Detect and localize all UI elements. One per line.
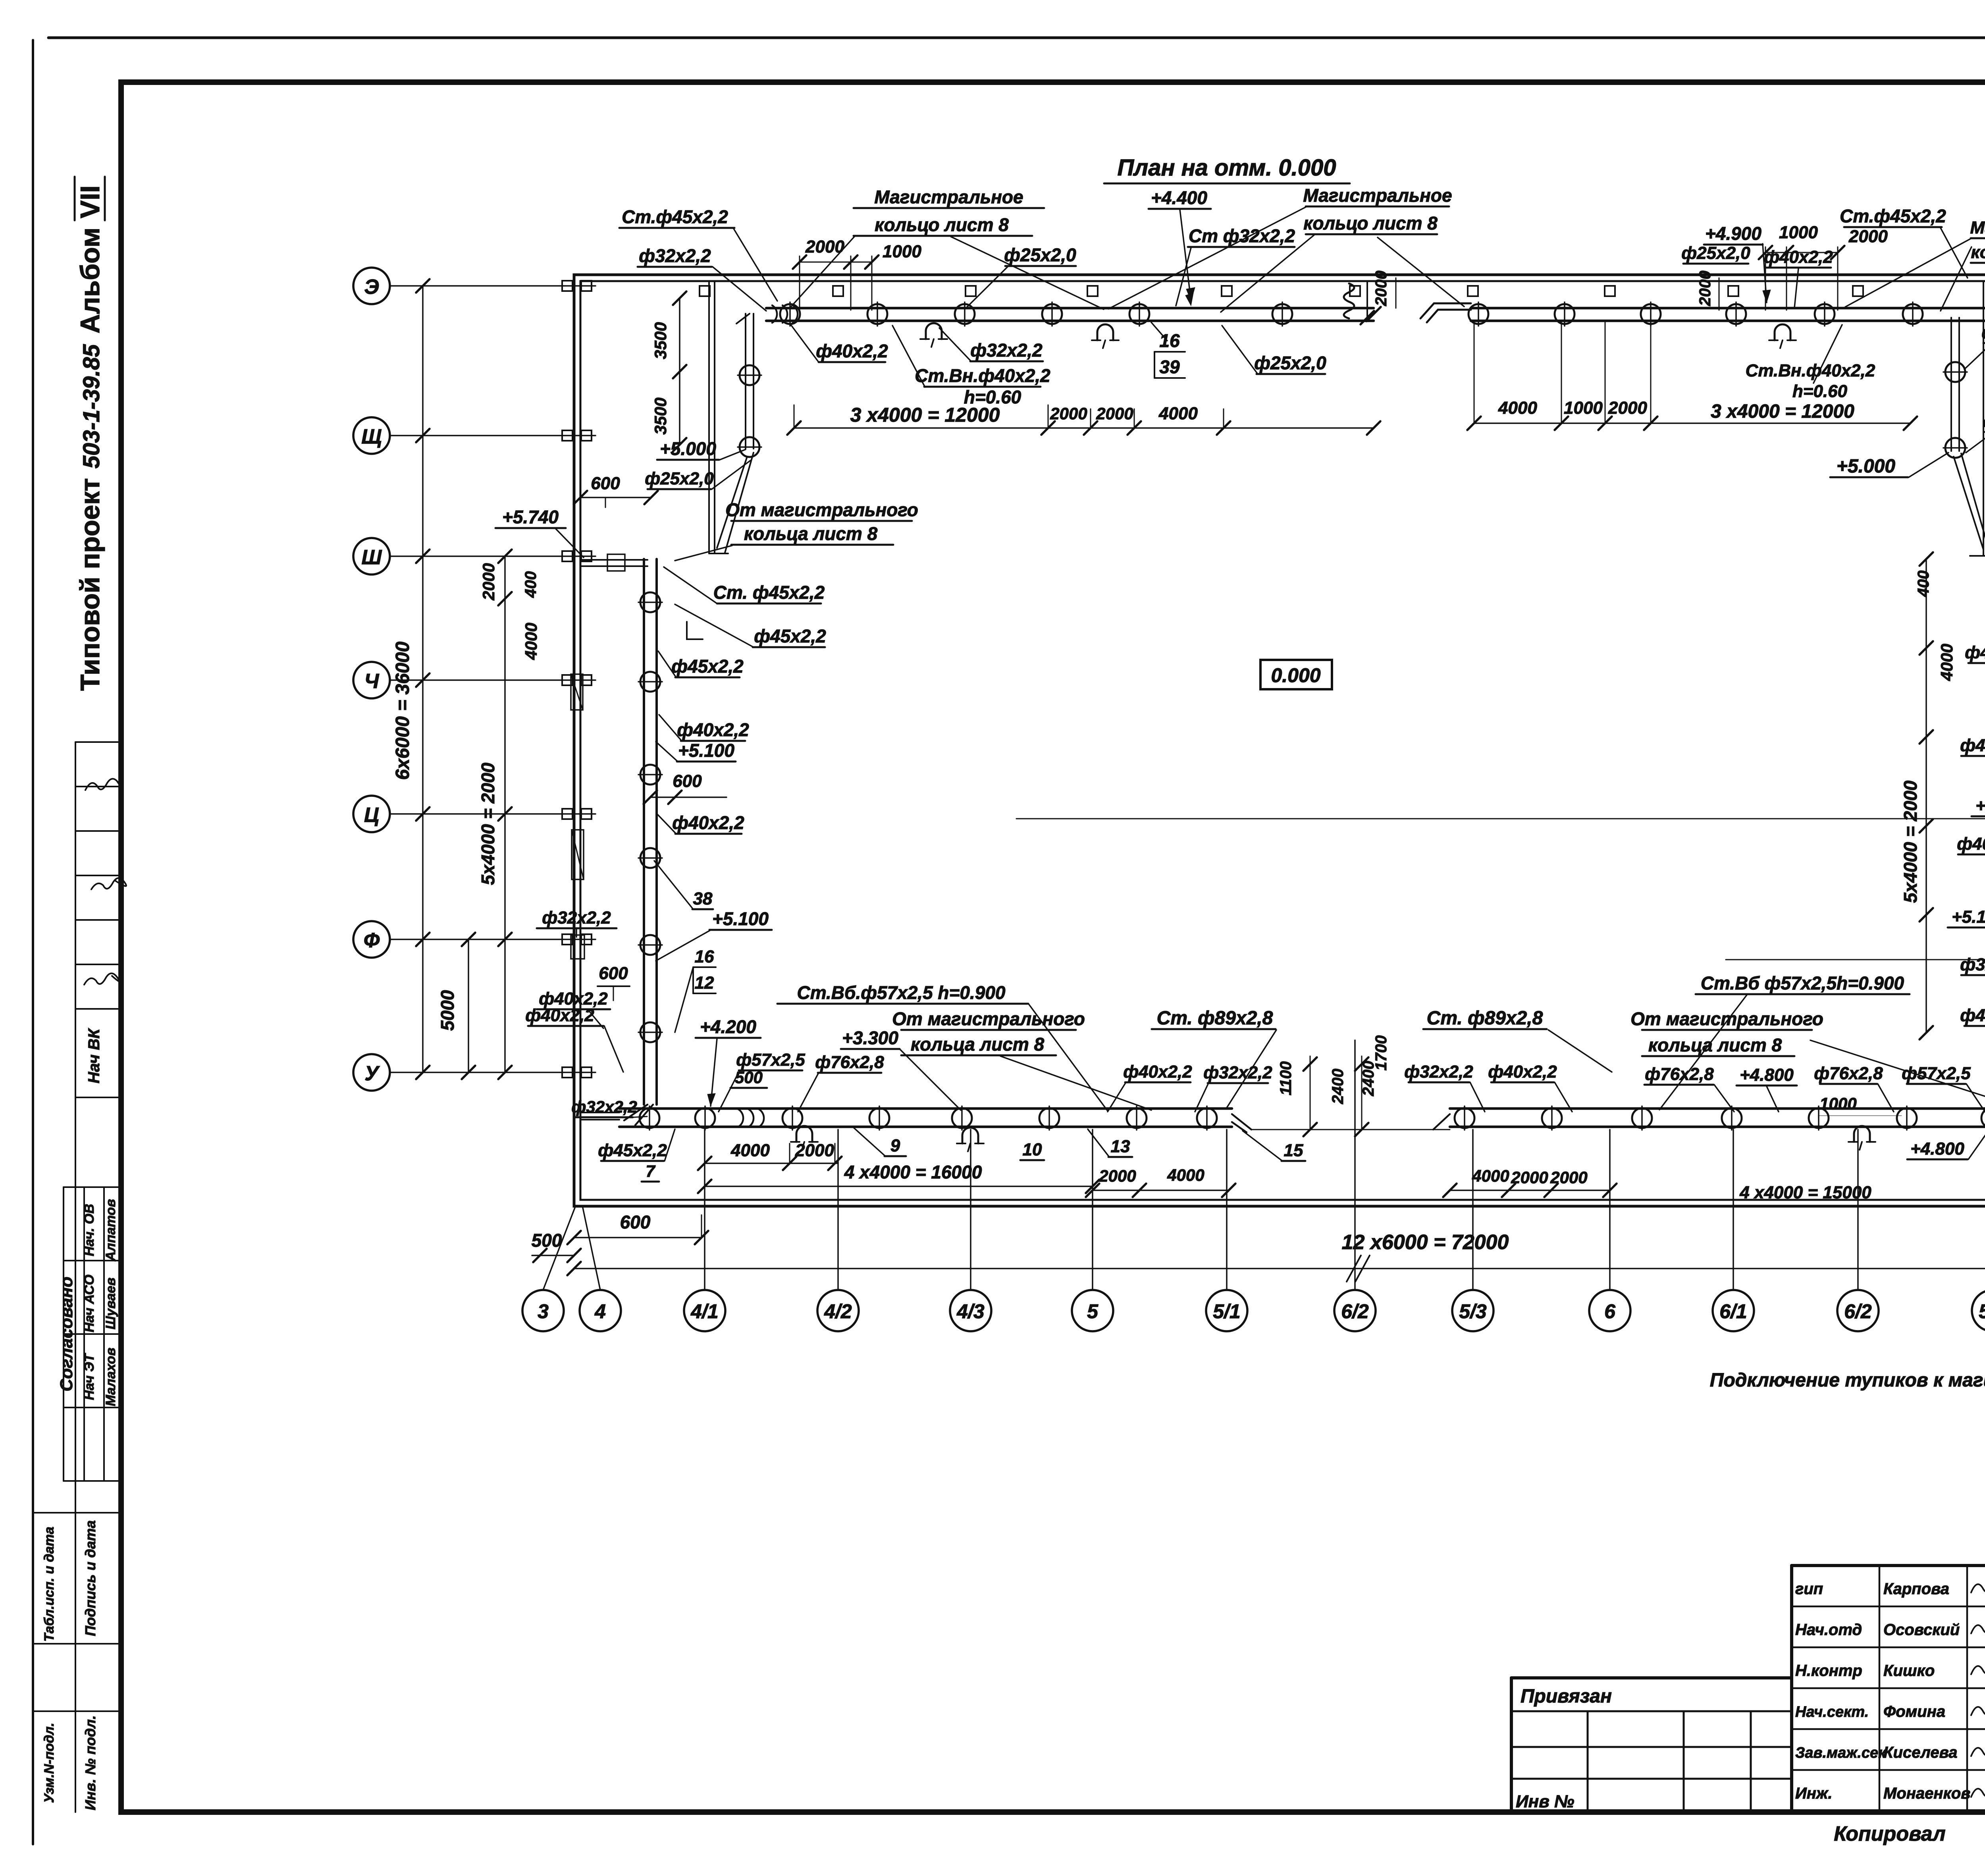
svg-text:ф32х2,2: ф32х2,2 — [571, 1097, 637, 1116]
svg-text:5: 5 — [1087, 1300, 1098, 1323]
svg-text:3500: 3500 — [651, 397, 670, 434]
svg-text:ф40х2,2: ф40х2,2 — [1960, 1006, 1985, 1025]
svg-text:4000: 4000 — [730, 1141, 770, 1160]
svg-text:ф25х2,0: ф25х2,0 — [1681, 243, 1750, 263]
svg-text:Ст.Вб ф57х2,5h=0.900: Ст.Вб ф57х2,5h=0.900 — [1701, 973, 1904, 993]
svg-text:ф32х2,2: ф32х2,2 — [1981, 323, 1985, 342]
svg-text:+4.800: +4.800 — [1910, 1139, 1964, 1159]
svg-text:6/2: 6/2 — [1341, 1300, 1369, 1323]
svg-text:+5.100: +5.100 — [712, 908, 769, 929]
svg-text:500: 500 — [532, 1230, 562, 1251]
svg-text:Монаенков: Монаенков — [1883, 1785, 1970, 1802]
svg-text:4/2: 4/2 — [824, 1300, 852, 1323]
svg-text:ф76х2,8: ф76х2,8 — [1645, 1064, 1714, 1084]
svg-text:Ст. ф89х2,8: Ст. ф89х2,8 — [1157, 1008, 1273, 1029]
svg-text:6х6000 = 36000: 6х6000 = 36000 — [392, 642, 413, 780]
svg-text:ф40х2,2: ф40х2,2 — [816, 341, 888, 361]
svg-text:Н.контр: Н.контр — [1795, 1662, 1862, 1679]
svg-text:ф32х2,2: ф32х2,2 — [639, 245, 711, 266]
svg-text:+3.300: +3.300 — [842, 1028, 898, 1048]
svg-text:1000: 1000 — [1564, 398, 1603, 418]
svg-text:2000: 2000 — [1098, 1166, 1136, 1185]
svg-text:2000: 2000 — [1848, 227, 1888, 246]
svg-text:Киселева: Киселева — [1883, 1744, 1957, 1761]
svg-text:2400: 2400 — [1329, 1069, 1347, 1105]
svg-text:503-1-39.85: 503-1-39.85 — [79, 344, 104, 469]
svg-text:+5.100: +5.100 — [1952, 907, 1985, 927]
svg-text:3 х4000 = 12000: 3 х4000 = 12000 — [850, 404, 1000, 426]
svg-text:2000: 2000 — [1608, 398, 1647, 418]
svg-text:+5.000: +5.000 — [660, 438, 716, 459]
svg-text:Ц: Ц — [364, 804, 379, 827]
svg-text:Согласовано: Согласовано — [57, 1276, 76, 1391]
svg-text:Узм.N-подл.: Узм.N-подл. — [42, 1723, 57, 1803]
svg-text:ф57х2,5: ф57х2,5 — [736, 1050, 805, 1070]
svg-text:600: 600 — [673, 771, 702, 791]
svg-text:4 х4000 = 16000: 4 х4000 = 16000 — [844, 1162, 982, 1182]
svg-text:Малахов: Малахов — [103, 1348, 118, 1406]
svg-text:16: 16 — [695, 947, 714, 966]
svg-text:Табл.исп. и дата: Табл.исп. и дата — [42, 1527, 57, 1642]
svg-text:2000: 2000 — [1696, 271, 1714, 307]
svg-text:2000: 2000 — [805, 237, 844, 256]
svg-text:Ст. ф45х2,2: Ст. ф45х2,2 — [713, 582, 825, 603]
svg-text:Ст.ф45х2,2: Ст.ф45х2,2 — [622, 206, 728, 227]
svg-text:2000: 2000 — [1550, 1168, 1587, 1187]
svg-text:Инв №: Инв № — [1516, 1792, 1574, 1811]
svg-text:Ст. ф89х2,8: Ст. ф89х2,8 — [1427, 1008, 1543, 1029]
svg-text:ф45х2,2: ф45х2,2 — [1965, 643, 1985, 662]
svg-text:ф25х2,0: ф25х2,0 — [1254, 353, 1326, 373]
svg-text:600: 600 — [599, 964, 628, 983]
svg-text:2000: 2000 — [1372, 271, 1390, 307]
svg-text:ф40х2,2: ф40х2,2 — [1957, 834, 1985, 854]
svg-text:4/3: 4/3 — [956, 1300, 985, 1323]
svg-text:Копировал: Копировал — [1834, 1822, 1945, 1845]
svg-text:10: 10 — [1023, 1140, 1042, 1159]
svg-text:1000: 1000 — [1779, 223, 1818, 242]
svg-text:4000: 4000 — [1167, 1166, 1204, 1184]
svg-text:38: 38 — [693, 889, 713, 908]
svg-text:ф25х2,0: ф25х2,0 — [645, 469, 714, 488]
svg-text:ф76х2,8: ф76х2,8 — [1814, 1064, 1883, 1083]
svg-text:Нач.сект.: Нач.сект. — [1795, 1704, 1869, 1720]
svg-text:4000: 4000 — [1158, 404, 1198, 423]
svg-text:ф25х2,0: ф25х2,0 — [1004, 245, 1076, 265]
svg-text:Нач.отд: Нач.отд — [1795, 1621, 1862, 1639]
svg-text:1000: 1000 — [883, 242, 921, 261]
svg-text:6/1: 6/1 — [1719, 1300, 1747, 1323]
svg-text:2000: 2000 — [795, 1141, 834, 1160]
svg-text:Алпатов: Алпатов — [103, 1199, 118, 1261]
svg-text:2000: 2000 — [1050, 404, 1087, 423]
svg-text:5/3: 5/3 — [1979, 1300, 1985, 1323]
svg-text:От магистрального: От магистрального — [1630, 1008, 1823, 1029]
svg-text:кольца лист 8: кольца лист 8 — [1648, 1035, 1782, 1055]
svg-text:ф32х2,2: ф32х2,2 — [542, 908, 611, 927]
svg-text:Подпись и дата: Подпись и дата — [82, 1520, 98, 1636]
svg-text:3: 3 — [538, 1300, 549, 1323]
svg-text:ф40х2,2: ф40х2,2 — [677, 719, 749, 740]
svg-text:5х4000 = 2000: 5х4000 = 2000 — [1900, 780, 1921, 903]
svg-text:ф45х2,2: ф45х2,2 — [671, 656, 744, 677]
svg-text:h=0.60: h=0.60 — [1792, 382, 1848, 401]
svg-text:Зав.маж.сек: Зав.маж.сек — [1795, 1745, 1887, 1761]
svg-text:16: 16 — [1159, 330, 1180, 351]
svg-text:От магистрального: От магистрального — [892, 1008, 1085, 1029]
svg-text:Ст.ф45х2,2: Ст.ф45х2,2 — [1840, 206, 1946, 226]
svg-text:кольца лист 8: кольца лист 8 — [744, 523, 878, 544]
svg-text:5000: 5000 — [437, 990, 458, 1031]
svg-text:400: 400 — [1915, 571, 1932, 598]
svg-text:Нач. ОВ: Нач. ОВ — [82, 1204, 97, 1256]
svg-text:ф25х2,0: ф25х2,0 — [1983, 412, 1985, 431]
svg-text:ф40х2,2: ф40х2,2 — [1960, 736, 1985, 755]
svg-text:500: 500 — [735, 1068, 763, 1087]
svg-text:15: 15 — [1284, 1141, 1303, 1160]
svg-text:План на отм. 0.000: План на отм. 0.000 — [1117, 155, 1336, 181]
svg-text:ф40х2,2: ф40х2,2 — [525, 1006, 594, 1025]
svg-text:ф40х2,2: ф40х2,2 — [1488, 1062, 1557, 1082]
svg-text:кольца лист 8: кольца лист 8 — [911, 1034, 1045, 1055]
svg-text:Ст.Вб.ф57х2,5 h=0.900: Ст.Вб.ф57х2,5 h=0.900 — [797, 982, 1005, 1003]
svg-text:Щ: Щ — [361, 425, 382, 448]
svg-text:4 х4000 = 15000: 4 х4000 = 15000 — [1739, 1183, 1871, 1202]
svg-text:0.000: 0.000 — [1271, 664, 1320, 686]
svg-text:Э: Э — [364, 276, 379, 299]
svg-text:2000: 2000 — [1096, 404, 1133, 423]
svg-text:Шуваев: Шуваев — [103, 1278, 118, 1330]
svg-text:Осовский: Осовский — [1883, 1621, 1960, 1639]
svg-text:1100: 1100 — [1277, 1061, 1295, 1095]
svg-text:Типовой проект: Типовой проект — [75, 478, 105, 691]
svg-text:3500: 3500 — [651, 322, 670, 359]
svg-text:5/3: 5/3 — [1459, 1300, 1487, 1323]
svg-text:12 х6000 = 72000: 12 х6000 = 72000 — [1342, 1231, 1509, 1254]
svg-text:ф32х2,2: ф32х2,2 — [1404, 1062, 1473, 1082]
svg-text:Нач АСО: Нач АСО — [82, 1274, 97, 1332]
svg-text:600: 600 — [620, 1212, 651, 1232]
svg-text:+4.800: +4.800 — [1740, 1065, 1794, 1085]
svg-text:Инж.: Инж. — [1795, 1785, 1833, 1802]
svg-text:кольцо лист 8: кольцо лист 8 — [875, 214, 1009, 235]
svg-text:4000: 4000 — [522, 623, 540, 660]
svg-text:Ш: Ш — [362, 546, 382, 569]
svg-text:Инв. № подл.: Инв. № подл. — [82, 1715, 98, 1810]
svg-text:Нач ЭТ: Нач ЭТ — [82, 1352, 97, 1400]
svg-text:2000: 2000 — [479, 563, 498, 600]
svg-text:+4.400: +4.400 — [1151, 187, 1207, 208]
svg-text:4: 4 — [594, 1300, 606, 1323]
svg-text:Фомина: Фомина — [1883, 1703, 1945, 1720]
svg-text:7: 7 — [646, 1162, 655, 1180]
svg-text:Карпова: Карпова — [1883, 1580, 1949, 1598]
svg-text:9: 9 — [890, 1136, 900, 1155]
svg-text:ф40х2,2: ф40х2,2 — [672, 812, 744, 833]
svg-text:+5.100: +5.100 — [1975, 796, 1985, 816]
svg-text:+5.740: +5.740 — [502, 507, 559, 527]
svg-text:1700: 1700 — [1372, 1035, 1390, 1071]
svg-text:Подключение тупиков к магис: Подключение тупиков к магистральному кол… — [1710, 1370, 1985, 1391]
svg-text:Нач ВК: Нач ВК — [85, 1028, 103, 1084]
svg-text:6: 6 — [1604, 1300, 1616, 1323]
svg-text:От магистрального: От магистрального — [725, 499, 918, 520]
svg-text:4/1: 4/1 — [690, 1300, 719, 1323]
svg-text:Ст.Вн.ф40х2,2: Ст.Вн.ф40х2,2 — [1746, 361, 1875, 380]
svg-text:Альбом: Альбом — [75, 228, 105, 334]
svg-text:Ф: Ф — [364, 929, 380, 952]
svg-text:ф45х2,2: ф45х2,2 — [598, 1141, 667, 1160]
svg-text:Магистральное: Магистральное — [874, 187, 1023, 207]
svg-text:6/2: 6/2 — [1844, 1300, 1872, 1323]
svg-text:5х4000 = 2000: 5х4000 = 2000 — [478, 762, 498, 885]
svg-text:4000: 4000 — [1472, 1166, 1509, 1185]
svg-text:У: У — [364, 1062, 380, 1085]
svg-text:400: 400 — [522, 571, 540, 598]
svg-text:Привязан: Привязан — [1521, 1686, 1612, 1707]
svg-text:ф32х2,2: ф32х2,2 — [1960, 955, 1985, 974]
svg-text:600: 600 — [591, 474, 620, 493]
svg-text:Ст ф32х2,2: Ст ф32х2,2 — [1189, 226, 1295, 246]
svg-text:ф40х2,2: ф40х2,2 — [1123, 1062, 1192, 1082]
svg-text:гип: гип — [1795, 1580, 1823, 1598]
svg-text:Кишко: Кишко — [1883, 1662, 1935, 1679]
svg-text:ф32х2,2: ф32х2,2 — [970, 340, 1043, 361]
svg-text:ф76х2,8: ф76х2,8 — [815, 1053, 884, 1072]
svg-text:+4.900: +4.900 — [1705, 223, 1761, 244]
svg-text:ф45х2,2: ф45х2,2 — [754, 626, 826, 646]
svg-text:4000: 4000 — [1937, 644, 1956, 681]
svg-text:+5.000: +5.000 — [1837, 456, 1895, 477]
svg-text:5/1: 5/1 — [1213, 1300, 1241, 1323]
svg-text:Ч: Ч — [364, 670, 380, 693]
svg-text:VII: VII — [75, 185, 105, 218]
svg-text:кольцо лист 8: кольцо лист 8 — [1303, 213, 1438, 233]
svg-text:12: 12 — [695, 973, 714, 993]
svg-text:кольцо лист 8: кольцо лист 8 — [1971, 243, 1985, 262]
svg-text:39: 39 — [1159, 357, 1180, 377]
svg-text:ф32х2,2: ф32х2,2 — [1203, 1063, 1272, 1082]
svg-text:3 х4000 = 12000: 3 х4000 = 12000 — [1711, 401, 1854, 422]
svg-text:13: 13 — [1111, 1137, 1130, 1156]
svg-text:Магистральное: Магистральное — [1303, 185, 1452, 206]
svg-text:Магистральное: Магистральное — [1970, 218, 1985, 237]
svg-text:ф40х2,2: ф40х2,2 — [1764, 247, 1833, 267]
svg-text:1000: 1000 — [1819, 1094, 1856, 1113]
svg-text:+5.100: +5.100 — [678, 740, 734, 761]
svg-text:4000: 4000 — [1498, 398, 1537, 418]
svg-text:Ст.Вн.ф40х2,2: Ст.Вн.ф40х2,2 — [915, 365, 1050, 386]
svg-text:+4.200: +4.200 — [700, 1016, 756, 1037]
